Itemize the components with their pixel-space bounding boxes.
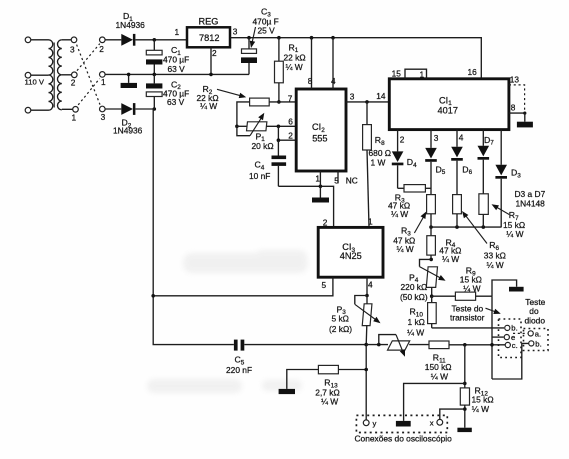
svg-text:25 V: 25 V bbox=[258, 26, 276, 36]
resistor R13 bbox=[287, 365, 366, 406]
svg-text:1: 1 bbox=[175, 27, 180, 37]
wire CI3 pin4 stem bbox=[366, 277, 368, 295]
terminal y bbox=[363, 420, 369, 426]
svg-text:4: 4 bbox=[368, 279, 373, 289]
wire y terminal column bbox=[365, 345, 367, 420]
svg-text:8: 8 bbox=[308, 76, 313, 86]
svg-text:16: 16 bbox=[468, 67, 478, 77]
svg-text:D3: D3 bbox=[511, 168, 521, 180]
diode D2 bbox=[105, 103, 153, 136]
transformer T1 core bbox=[53, 43, 55, 108]
svg-text:2: 2 bbox=[99, 44, 104, 54]
capacitor C3 bbox=[241, 7, 279, 75]
svg-text:¼ W: ¼ W bbox=[397, 244, 414, 254]
svg-text:2: 2 bbox=[400, 135, 405, 145]
svg-text:C4: C4 bbox=[255, 160, 265, 172]
ground G3 bbox=[517, 113, 533, 127]
arrow C3 annotation bbox=[252, 27, 256, 43]
transformer T1 secondary winding bbox=[57, 37, 78, 122]
wire x terminal bend bbox=[440, 409, 465, 419]
svg-text:x: x bbox=[430, 419, 434, 428]
svg-text:b.: b. bbox=[535, 339, 541, 348]
svg-text:220 kΩ: 220 kΩ bbox=[401, 282, 428, 292]
dashed link secondary 3 to node 3 bbox=[77, 45, 100, 105]
svg-text:D6: D6 bbox=[462, 164, 472, 176]
svg-text:a.: a. bbox=[535, 329, 541, 338]
svg-text:4: 4 bbox=[331, 76, 336, 86]
ground G1 bbox=[121, 74, 137, 88]
diode D1 bbox=[105, 11, 187, 46]
svg-text:3: 3 bbox=[101, 112, 106, 122]
svg-text:¼ W: ¼ W bbox=[431, 372, 448, 382]
wire 555 pin1 stem bbox=[319, 171, 321, 186]
wire R12 column bbox=[464, 345, 466, 388]
ground G5 oscilloscope bbox=[396, 421, 411, 427]
pin 8 wire bbox=[509, 103, 527, 115]
svg-text:7: 7 bbox=[288, 93, 293, 103]
potentiometer P3 bbox=[329, 296, 381, 345]
pin labels CI2 bbox=[288, 76, 386, 186]
svg-text:6: 6 bbox=[288, 116, 293, 126]
svg-text:diodo: diodo bbox=[525, 316, 546, 326]
svg-text:63 V: 63 V bbox=[168, 64, 186, 74]
dotted box oscilloscope connections bbox=[356, 415, 447, 432]
svg-text:4N25: 4N25 bbox=[340, 251, 362, 261]
label R3 second with arrow bbox=[393, 212, 426, 255]
svg-text:REG: REG bbox=[199, 17, 219, 27]
svg-text:NC: NC bbox=[346, 175, 358, 185]
svg-text:D4: D4 bbox=[407, 157, 417, 169]
node dot D1/C1 bbox=[153, 38, 157, 42]
svg-text:¼ W: ¼ W bbox=[200, 101, 217, 111]
resistor R10 bbox=[407, 296, 436, 337]
svg-text:1N4148: 1N4148 bbox=[516, 198, 546, 208]
potentiometer P4 bbox=[400, 259, 446, 301]
node 2 bbox=[99, 37, 105, 54]
svg-text:1: 1 bbox=[420, 69, 425, 79]
dashed link secondary 2 to node 2 bbox=[77, 44, 100, 71]
svg-text:14: 14 bbox=[376, 91, 386, 101]
wire U link to diode b terminal bbox=[492, 343, 529, 379]
svg-text:¼ W: ¼ W bbox=[472, 404, 489, 414]
svg-text:do: do bbox=[529, 306, 539, 316]
wire 555 pin8 stem bbox=[311, 38, 313, 89]
svg-text:220 nF: 220 nF bbox=[226, 365, 252, 375]
wire 555 pin1 ground row bbox=[278, 186, 333, 227]
svg-text:7812: 7812 bbox=[199, 33, 219, 43]
resistor R1 bbox=[275, 38, 306, 102]
potentiometer P1 bbox=[235, 113, 296, 151]
diode D5 bbox=[425, 130, 446, 195]
wire ground G5 row bbox=[404, 383, 465, 421]
svg-text:1N4936: 1N4936 bbox=[113, 126, 143, 136]
+12V top rail wire bbox=[230, 38, 481, 79]
svg-text:2: 2 bbox=[323, 218, 328, 228]
wire 555 pin4 stem bbox=[332, 38, 334, 89]
svg-text:1: 1 bbox=[315, 174, 320, 184]
counter CI1 4017 bbox=[389, 79, 509, 130]
svg-text:3: 3 bbox=[70, 45, 75, 55]
svg-text:3: 3 bbox=[434, 133, 439, 143]
arrow R2 annotation bbox=[217, 89, 240, 95]
optocoupler CI3 4N25 bbox=[318, 217, 383, 290]
diode D3 bbox=[495, 130, 521, 228]
terminal b diode bbox=[529, 341, 534, 346]
svg-text:63 V: 63 V bbox=[167, 97, 185, 107]
svg-text:¼ W: ¼ W bbox=[487, 260, 504, 270]
svg-text:1 kΩ: 1 kΩ bbox=[408, 317, 425, 327]
svg-text:¼ W: ¼ W bbox=[321, 396, 338, 406]
svg-text:¼ W: ¼ W bbox=[286, 62, 303, 72]
resistor R12 bbox=[460, 386, 493, 428]
node dot D2/C2 bbox=[153, 107, 157, 111]
svg-text:2: 2 bbox=[288, 131, 293, 141]
svg-text:b.: b. bbox=[511, 324, 517, 333]
CI1 bottom pin labels bbox=[400, 133, 494, 147]
node 1 bbox=[100, 72, 107, 87]
resistor R6 bbox=[453, 195, 506, 270]
svg-text:2: 2 bbox=[212, 48, 217, 58]
wire emitter row to terminal e bbox=[492, 336, 504, 338]
label Teste do transistor bbox=[450, 304, 501, 323]
wire base row to terminal b bbox=[432, 327, 504, 329]
op timer CI2 555 bbox=[296, 89, 346, 171]
dashed link secondary 1 to node 1 bbox=[78, 79, 99, 105]
wire bottom rail to pot bbox=[366, 344, 388, 346]
capacitor C1 bbox=[146, 40, 189, 75]
wire left column bbox=[153, 109, 234, 345]
svg-text:20 kΩ: 20 kΩ bbox=[252, 141, 274, 151]
svg-text:555: 555 bbox=[312, 134, 327, 144]
svg-text:110 V: 110 V bbox=[25, 78, 45, 87]
svg-text:15: 15 bbox=[392, 69, 402, 79]
ground G6 below R12 bbox=[457, 428, 471, 432]
resistor R2 bbox=[197, 84, 270, 126]
svg-text:4: 4 bbox=[459, 133, 464, 143]
resistor R5 vertical (labelled R3) bbox=[427, 195, 436, 214]
resistor R7 bbox=[479, 194, 525, 239]
terminal c transistor bbox=[505, 342, 510, 347]
dashed stub to terminal a bbox=[513, 332, 528, 334]
dotted box diode test terminals bbox=[524, 329, 549, 351]
svg-text:(50 kΩ): (50 kΩ) bbox=[400, 292, 428, 302]
svg-text:680 Ω: 680 Ω bbox=[369, 148, 392, 158]
potentiometer on rail (P3 wiper section) bbox=[379, 335, 429, 357]
svg-text:1: 1 bbox=[72, 112, 77, 122]
terminal a diode bbox=[528, 331, 533, 336]
svg-text:5: 5 bbox=[322, 280, 327, 290]
resistor R3 horizontal bbox=[388, 185, 431, 220]
terminal x bbox=[437, 419, 443, 425]
middle rail wire bbox=[105, 73, 249, 75]
svg-text:2: 2 bbox=[71, 78, 76, 88]
svg-text:5 kΩ: 5 kΩ bbox=[332, 313, 349, 323]
svg-text:3: 3 bbox=[233, 27, 238, 37]
capacitor C2 bbox=[146, 74, 189, 109]
label Teste do diodo bbox=[525, 297, 546, 326]
svg-text:¼ W: ¼ W bbox=[407, 327, 424, 337]
node 3 bbox=[100, 106, 106, 122]
svg-text:Conexões do osciloscópio: Conexões do osciloscópio bbox=[355, 434, 453, 444]
svg-text:¼ W: ¼ W bbox=[506, 229, 523, 239]
svg-text:D5: D5 bbox=[436, 164, 446, 176]
wire CI1 pins 15-1 loop bbox=[405, 69, 427, 79]
ground G4 below R13 bbox=[279, 389, 295, 394]
diode D4 bbox=[392, 130, 417, 189]
svg-text:¼ W: ¼ W bbox=[463, 284, 480, 294]
svg-text:3: 3 bbox=[350, 92, 355, 102]
svg-text:8: 8 bbox=[511, 103, 516, 113]
svg-text:22 kΩ: 22 kΩ bbox=[284, 52, 306, 62]
resistor R11 bbox=[425, 341, 505, 382]
voltage regulator REG 7812 bbox=[175, 17, 238, 75]
svg-text:13: 13 bbox=[510, 74, 520, 84]
terminal b transistor bbox=[505, 325, 510, 330]
wire 555 pin7 row bbox=[269, 101, 296, 103]
transformer T1 primary winding bbox=[25, 37, 53, 113]
svg-text:¼ W: ¼ W bbox=[391, 209, 408, 219]
wire 555 pin3 to CI1 pin14 bbox=[346, 101, 389, 103]
svg-text:1N4936: 1N4936 bbox=[116, 20, 146, 30]
resistor R9 bbox=[432, 266, 492, 301]
bus wire diode cathode rail bbox=[431, 226, 501, 228]
dotted box transistor test terminals bbox=[499, 319, 522, 358]
diode D7 bbox=[478, 130, 490, 194]
wire riser down bbox=[491, 296, 493, 379]
wire 555 pin5 NC stem bbox=[337, 171, 339, 183]
capacitor C4 bbox=[249, 156, 286, 187]
terminal e transistor bbox=[504, 335, 509, 340]
resistor R8 bbox=[363, 102, 391, 227]
svg-text:1: 1 bbox=[101, 77, 106, 87]
svg-text:D7: D7 bbox=[484, 135, 494, 147]
wire CI3 pin5 row bbox=[153, 277, 333, 296]
terminal bar transistor test top bbox=[509, 287, 524, 292]
svg-text:4017: 4017 bbox=[438, 105, 458, 115]
wire riser to transistor test bbox=[492, 280, 517, 296]
resistor R4 bbox=[427, 227, 462, 264]
svg-text:c.: c. bbox=[512, 341, 518, 350]
svg-text:(2 kΩ): (2 kΩ) bbox=[329, 324, 352, 334]
svg-text:150 kΩ: 150 kΩ bbox=[425, 362, 452, 372]
svg-text:1: 1 bbox=[368, 217, 373, 227]
svg-text:y: y bbox=[373, 419, 377, 428]
svg-text:¼ W: ¼ W bbox=[442, 254, 459, 264]
pin 13 dashed wire bbox=[509, 74, 525, 112]
svg-text:10 nF: 10 nF bbox=[249, 171, 270, 181]
label D3 a D7 1N4148 bbox=[515, 189, 546, 208]
ground G2 bbox=[312, 186, 329, 202]
svg-text:1 W: 1 W bbox=[371, 157, 386, 167]
diode D6 bbox=[451, 130, 472, 195]
wire 555 pins 6-2 tie bbox=[277, 125, 281, 129]
svg-text:transistor: transistor bbox=[450, 313, 485, 323]
svg-text:R8: R8 bbox=[375, 135, 385, 147]
capacitor C5 bbox=[226, 340, 366, 375]
